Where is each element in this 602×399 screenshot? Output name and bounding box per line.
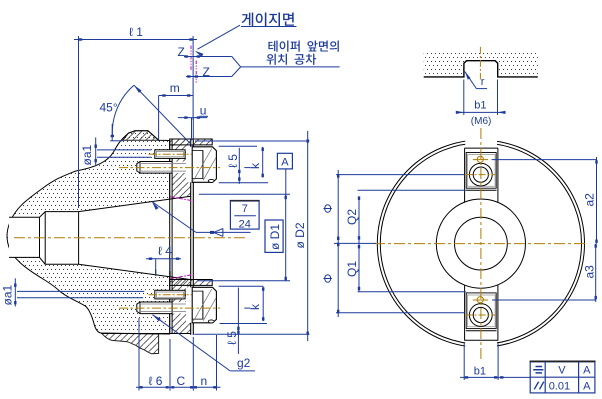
svg-text:0.01: 0.01 bbox=[549, 380, 570, 392]
svg-text:u: u bbox=[200, 104, 207, 118]
svg-text:øa1: øa1 bbox=[1, 284, 15, 305]
svg-text:Q1: Q1 bbox=[345, 261, 359, 277]
svg-text:ℓ 5: ℓ 5 bbox=[226, 154, 240, 168]
svg-text:A: A bbox=[281, 157, 289, 169]
svg-text:ℓ 4: ℓ 4 bbox=[158, 244, 172, 258]
svg-text:a3: a3 bbox=[583, 265, 597, 279]
svg-text:k: k bbox=[248, 303, 262, 310]
svg-text:(M6): (M6) bbox=[471, 116, 492, 127]
svg-text:Q2: Q2 bbox=[345, 209, 359, 225]
svg-text:Z: Z bbox=[203, 65, 210, 79]
svg-text:ø D2: ø D2 bbox=[293, 222, 307, 248]
svg-text:A: A bbox=[583, 380, 591, 392]
svg-text:A: A bbox=[583, 365, 591, 377]
svg-text:ℓ 1: ℓ 1 bbox=[129, 25, 143, 39]
svg-text:r: r bbox=[481, 76, 485, 88]
svg-text:g2: g2 bbox=[237, 356, 251, 370]
svg-text:øa1: øa1 bbox=[80, 144, 94, 165]
svg-text:24: 24 bbox=[239, 219, 251, 231]
svg-text:n: n bbox=[201, 374, 208, 388]
svg-text:b1: b1 bbox=[474, 100, 486, 112]
svg-text:b1: b1 bbox=[474, 366, 486, 378]
svg-text:k: k bbox=[248, 162, 262, 169]
svg-text:C: C bbox=[177, 374, 186, 388]
svg-text:ø D1: ø D1 bbox=[268, 224, 282, 250]
svg-text:a2: a2 bbox=[583, 193, 597, 207]
svg-text:7: 7 bbox=[242, 203, 248, 215]
svg-text:ℓ 6: ℓ 6 bbox=[149, 374, 163, 388]
svg-text:V: V bbox=[558, 365, 566, 377]
svg-text:45°: 45° bbox=[100, 101, 118, 115]
svg-text:ℓ 5: ℓ 5 bbox=[225, 331, 239, 345]
svg-text:m: m bbox=[170, 81, 180, 95]
svg-text:Z: Z bbox=[178, 45, 185, 59]
